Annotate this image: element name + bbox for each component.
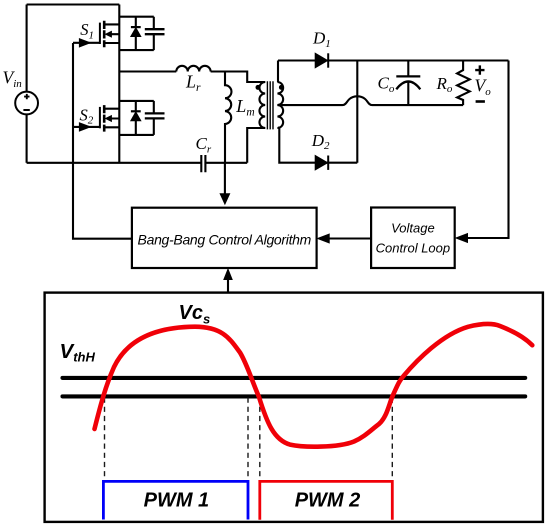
- transformer secondary winding: [277, 82, 283, 128]
- svg-text:Control Loop: Control Loop: [376, 240, 450, 255]
- svg-text:Vo: Vo: [475, 76, 492, 99]
- box waveform panel: [45, 293, 543, 522]
- wire drain-source bus: [118, 5, 120, 163]
- dot primary: [256, 85, 261, 90]
- dashed line t1: [104, 398, 106, 481]
- box bang-bang: [132, 208, 317, 268]
- snubber S1 box: [119, 17, 154, 50]
- svg-text:S1: S1: [80, 20, 94, 41]
- pulse PWM2: [260, 481, 393, 519]
- snubber S2 box: [119, 101, 154, 135]
- wire output right: [466, 61, 509, 239]
- svg-text:D2: D2: [311, 131, 330, 152]
- wire rail to transformer: [205, 162, 247, 164]
- transistor Q S1: [100, 21, 119, 48]
- transformer core: [267, 81, 273, 129]
- resistor Ro: [457, 61, 470, 106]
- wire secondary bottom: [279, 127, 357, 163]
- wire midpoint: [119, 70, 176, 72]
- diode S2 body: [131, 101, 141, 135]
- wire gate S2: [73, 126, 100, 128]
- capacitor Cr: [201, 155, 205, 172]
- wire primary bottom: [247, 128, 265, 163]
- pulse PWM1: [103, 481, 248, 519]
- capacitor S2 snubber: [145, 101, 165, 135]
- inductor Lm: [225, 72, 231, 163]
- dashed line t2: [247, 398, 249, 481]
- wire secondary top: [277, 61, 279, 83]
- wire center tap with hop: [277, 96, 463, 105]
- capacitor Co: [396, 61, 420, 106]
- arrow gate S1: [79, 39, 90, 47]
- curve Vcs resonant waveform: [95, 324, 533, 447]
- svg-text:Bang-Bang Control Algorithm: Bang-Bang Control Algorithm: [138, 231, 312, 247]
- svg-text:Lr: Lr: [185, 72, 201, 95]
- svg-text:PWM 1: PWM 1: [144, 490, 210, 512]
- arrow gate S2: [79, 123, 90, 131]
- wire Lr to primary: [211, 72, 266, 83]
- arrow into bang-bang: [318, 234, 330, 243]
- svg-text:S2: S2: [80, 105, 94, 126]
- wire left bottom: [26, 114, 28, 162]
- wire left top: [26, 5, 28, 92]
- wire output top: [278, 59, 509, 61]
- dashed line t3: [259, 398, 261, 481]
- source Vin: [15, 92, 38, 115]
- svg-text:PWM 2: PWM 2: [295, 490, 361, 512]
- svg-text:Co: Co: [378, 74, 395, 95]
- svg-text:Vcs: Vcs: [179, 302, 211, 327]
- threshold line upper: [63, 376, 526, 380]
- svg-text:Lm: Lm: [235, 96, 254, 119]
- transistor Q S2: [100, 105, 119, 132]
- svg-text:D1: D1: [312, 29, 331, 50]
- wire bottom rail: [27, 162, 202, 164]
- transformer primary winding: [259, 82, 265, 128]
- wire gate drive: [73, 43, 132, 239]
- svg-text:VthH: VthH: [60, 340, 96, 365]
- svg-text:Cr: Cr: [196, 134, 212, 155]
- diode S1 body: [131, 17, 141, 50]
- arrow waveform up: [224, 269, 232, 292]
- arrow Vcs sense down: [220, 163, 229, 204]
- dot secondary: [279, 85, 284, 90]
- diode D1: [315, 53, 328, 67]
- capacitor S1 snubber: [145, 17, 165, 50]
- diode D2: [315, 156, 328, 170]
- wire gate S1: [73, 42, 100, 44]
- dashed line t4: [391, 398, 393, 481]
- svg-text:Voltage: Voltage: [391, 220, 435, 235]
- inductor Lr: [176, 66, 210, 72]
- arrow into voltage loop: [456, 234, 468, 243]
- wire rectifier bus: [356, 61, 358, 163]
- wire vcl to bb: [329, 237, 371, 239]
- svg-text:Ro: Ro: [436, 74, 453, 95]
- wire top rail: [27, 3, 120, 5]
- label Vo plus: [475, 65, 484, 74]
- threshold line lower: [63, 394, 526, 398]
- svg-text:Vin: Vin: [3, 68, 23, 91]
- box voltage control loop: [371, 208, 455, 269]
- label Vo minus: [476, 100, 485, 103]
